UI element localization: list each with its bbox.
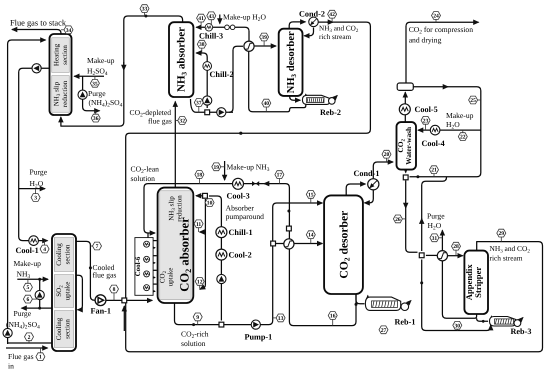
svg-text:38: 38 [199, 42, 205, 48]
svg-text:Make-up: Make-up [14, 259, 42, 268]
svg-text:22: 22 [460, 135, 466, 141]
svg-text:Make-up: Make-up [87, 56, 115, 65]
svg-text:10: 10 [207, 201, 213, 207]
svg-text:solution: solution [131, 174, 156, 183]
svg-text:25: 25 [470, 98, 476, 104]
svg-text:43: 43 [209, 14, 215, 20]
svg-text:Cond-2: Cond-2 [299, 10, 325, 19]
svg-text:NH3 desorber: NH3 desorber [286, 31, 298, 93]
svg-text:35: 35 [92, 81, 98, 87]
svg-text:Cond-1: Cond-1 [354, 169, 380, 178]
svg-text:Purge: Purge [88, 89, 106, 98]
svg-text:pumparound: pumparound [226, 212, 265, 221]
svg-text:Water-wash: Water-wash [404, 127, 413, 165]
svg-text:flue gas: flue gas [93, 271, 117, 280]
svg-text:Pump-1: Pump-1 [245, 333, 273, 342]
svg-text:Flue gas to stack: Flue gas to stack [10, 19, 67, 28]
svg-text:39: 39 [261, 35, 267, 41]
svg-text:section: section [61, 45, 69, 65]
svg-text:Cool-2: Cool-2 [229, 251, 252, 260]
svg-text:26: 26 [395, 217, 401, 223]
svg-text:2: 2 [28, 335, 31, 341]
svg-text:37: 37 [196, 101, 202, 107]
svg-text:21: 21 [431, 168, 437, 174]
svg-text:40: 40 [264, 101, 270, 107]
svg-text:15: 15 [308, 192, 314, 198]
svg-text:42: 42 [329, 12, 335, 18]
svg-text:Chill-1: Chill-1 [229, 228, 253, 237]
svg-text:19: 19 [214, 165, 220, 171]
svg-text:Make-up: Make-up [446, 111, 474, 120]
svg-text:28: 28 [453, 244, 459, 250]
svg-text:Stripper: Stripper [473, 267, 483, 298]
svg-text:29: 29 [499, 231, 505, 237]
svg-text:Cool-5: Cool-5 [415, 105, 438, 114]
svg-text:section: section [64, 244, 72, 264]
svg-text:23: 23 [423, 118, 429, 124]
svg-text:Reb-3: Reb-3 [511, 327, 532, 336]
svg-text:14: 14 [308, 233, 314, 239]
svg-text:17: 17 [277, 173, 283, 179]
svg-text:Cool-6: Cool-6 [134, 256, 142, 276]
svg-text:Purge: Purge [427, 212, 445, 221]
svg-text:Purge: Purge [30, 168, 48, 177]
svg-text:34: 34 [66, 28, 72, 34]
svg-text:CO2 for compression: CO2 for compression [409, 25, 474, 36]
svg-text:rich stream: rich stream [490, 254, 523, 263]
svg-text:Purge: Purge [14, 309, 32, 318]
svg-text:30: 30 [455, 323, 461, 329]
svg-text:(NH4)2SO4: (NH4)2SO4 [89, 98, 123, 109]
svg-text:4: 4 [43, 247, 46, 253]
svg-text:Chill-2: Chill-2 [210, 70, 234, 79]
svg-text:Cool-4: Cool-4 [422, 139, 445, 148]
svg-text:CO2 desorber: CO2 desorber [338, 211, 352, 279]
svg-text:Reb-1: Reb-1 [395, 318, 416, 327]
svg-text:Flue gas: Flue gas [8, 352, 34, 361]
svg-text:13: 13 [278, 316, 284, 322]
svg-text:9: 9 [196, 315, 199, 321]
svg-text:36: 36 [93, 116, 99, 122]
svg-text:and drying: and drying [409, 36, 442, 45]
svg-text:rich stream: rich stream [319, 33, 352, 41]
svg-text:reduction: reduction [176, 195, 184, 222]
svg-text:6: 6 [27, 297, 30, 303]
svg-text:solution: solution [181, 339, 206, 348]
svg-text:11: 11 [196, 222, 201, 228]
svg-text:27: 27 [381, 328, 387, 334]
svg-text:H2SO4: H2SO4 [87, 66, 108, 77]
svg-text:uptake: uptake [64, 282, 72, 301]
svg-text:(NH4)2SO4: (NH4)2SO4 [6, 320, 40, 331]
svg-text:Cooling: Cooling [55, 243, 63, 266]
svg-text:Heating: Heating [53, 43, 61, 66]
svg-text:section: section [64, 319, 72, 339]
svg-text:3: 3 [34, 196, 37, 202]
svg-text:reduction: reduction [61, 80, 69, 107]
svg-text:5: 5 [27, 285, 30, 291]
svg-text:NH3 absorber: NH3 absorber [176, 27, 189, 92]
svg-text:12: 12 [197, 279, 203, 285]
svg-text:Make-up H2O: Make-up H2O [223, 13, 267, 24]
svg-text:41: 41 [198, 16, 204, 22]
svg-text:Cool-1: Cool-1 [16, 246, 39, 255]
svg-text:31: 31 [432, 236, 438, 242]
svg-text:Chill-3: Chill-3 [199, 32, 223, 41]
svg-text:33: 33 [142, 7, 148, 13]
svg-text:flue gas: flue gas [148, 117, 172, 126]
svg-text:in: in [8, 362, 14, 370]
svg-text:CO2 absorber: CO2 absorber [178, 217, 193, 292]
svg-text:8: 8 [113, 287, 116, 293]
svg-text:20: 20 [384, 152, 390, 158]
svg-text:32: 32 [179, 119, 185, 125]
svg-text:Cooling: Cooling [55, 317, 63, 340]
svg-text:Cool-3: Cool-3 [227, 192, 250, 201]
svg-text:uptake: uptake [167, 268, 175, 287]
svg-text:24: 24 [433, 14, 439, 20]
svg-text:1: 1 [39, 355, 42, 361]
svg-text:Reb-2: Reb-2 [320, 108, 341, 117]
svg-text:18: 18 [197, 173, 203, 179]
svg-text:7: 7 [96, 244, 99, 250]
svg-text:Make-up NH3: Make-up NH3 [227, 163, 270, 174]
svg-text:16: 16 [330, 314, 336, 320]
svg-text:Fan-1: Fan-1 [91, 307, 111, 316]
